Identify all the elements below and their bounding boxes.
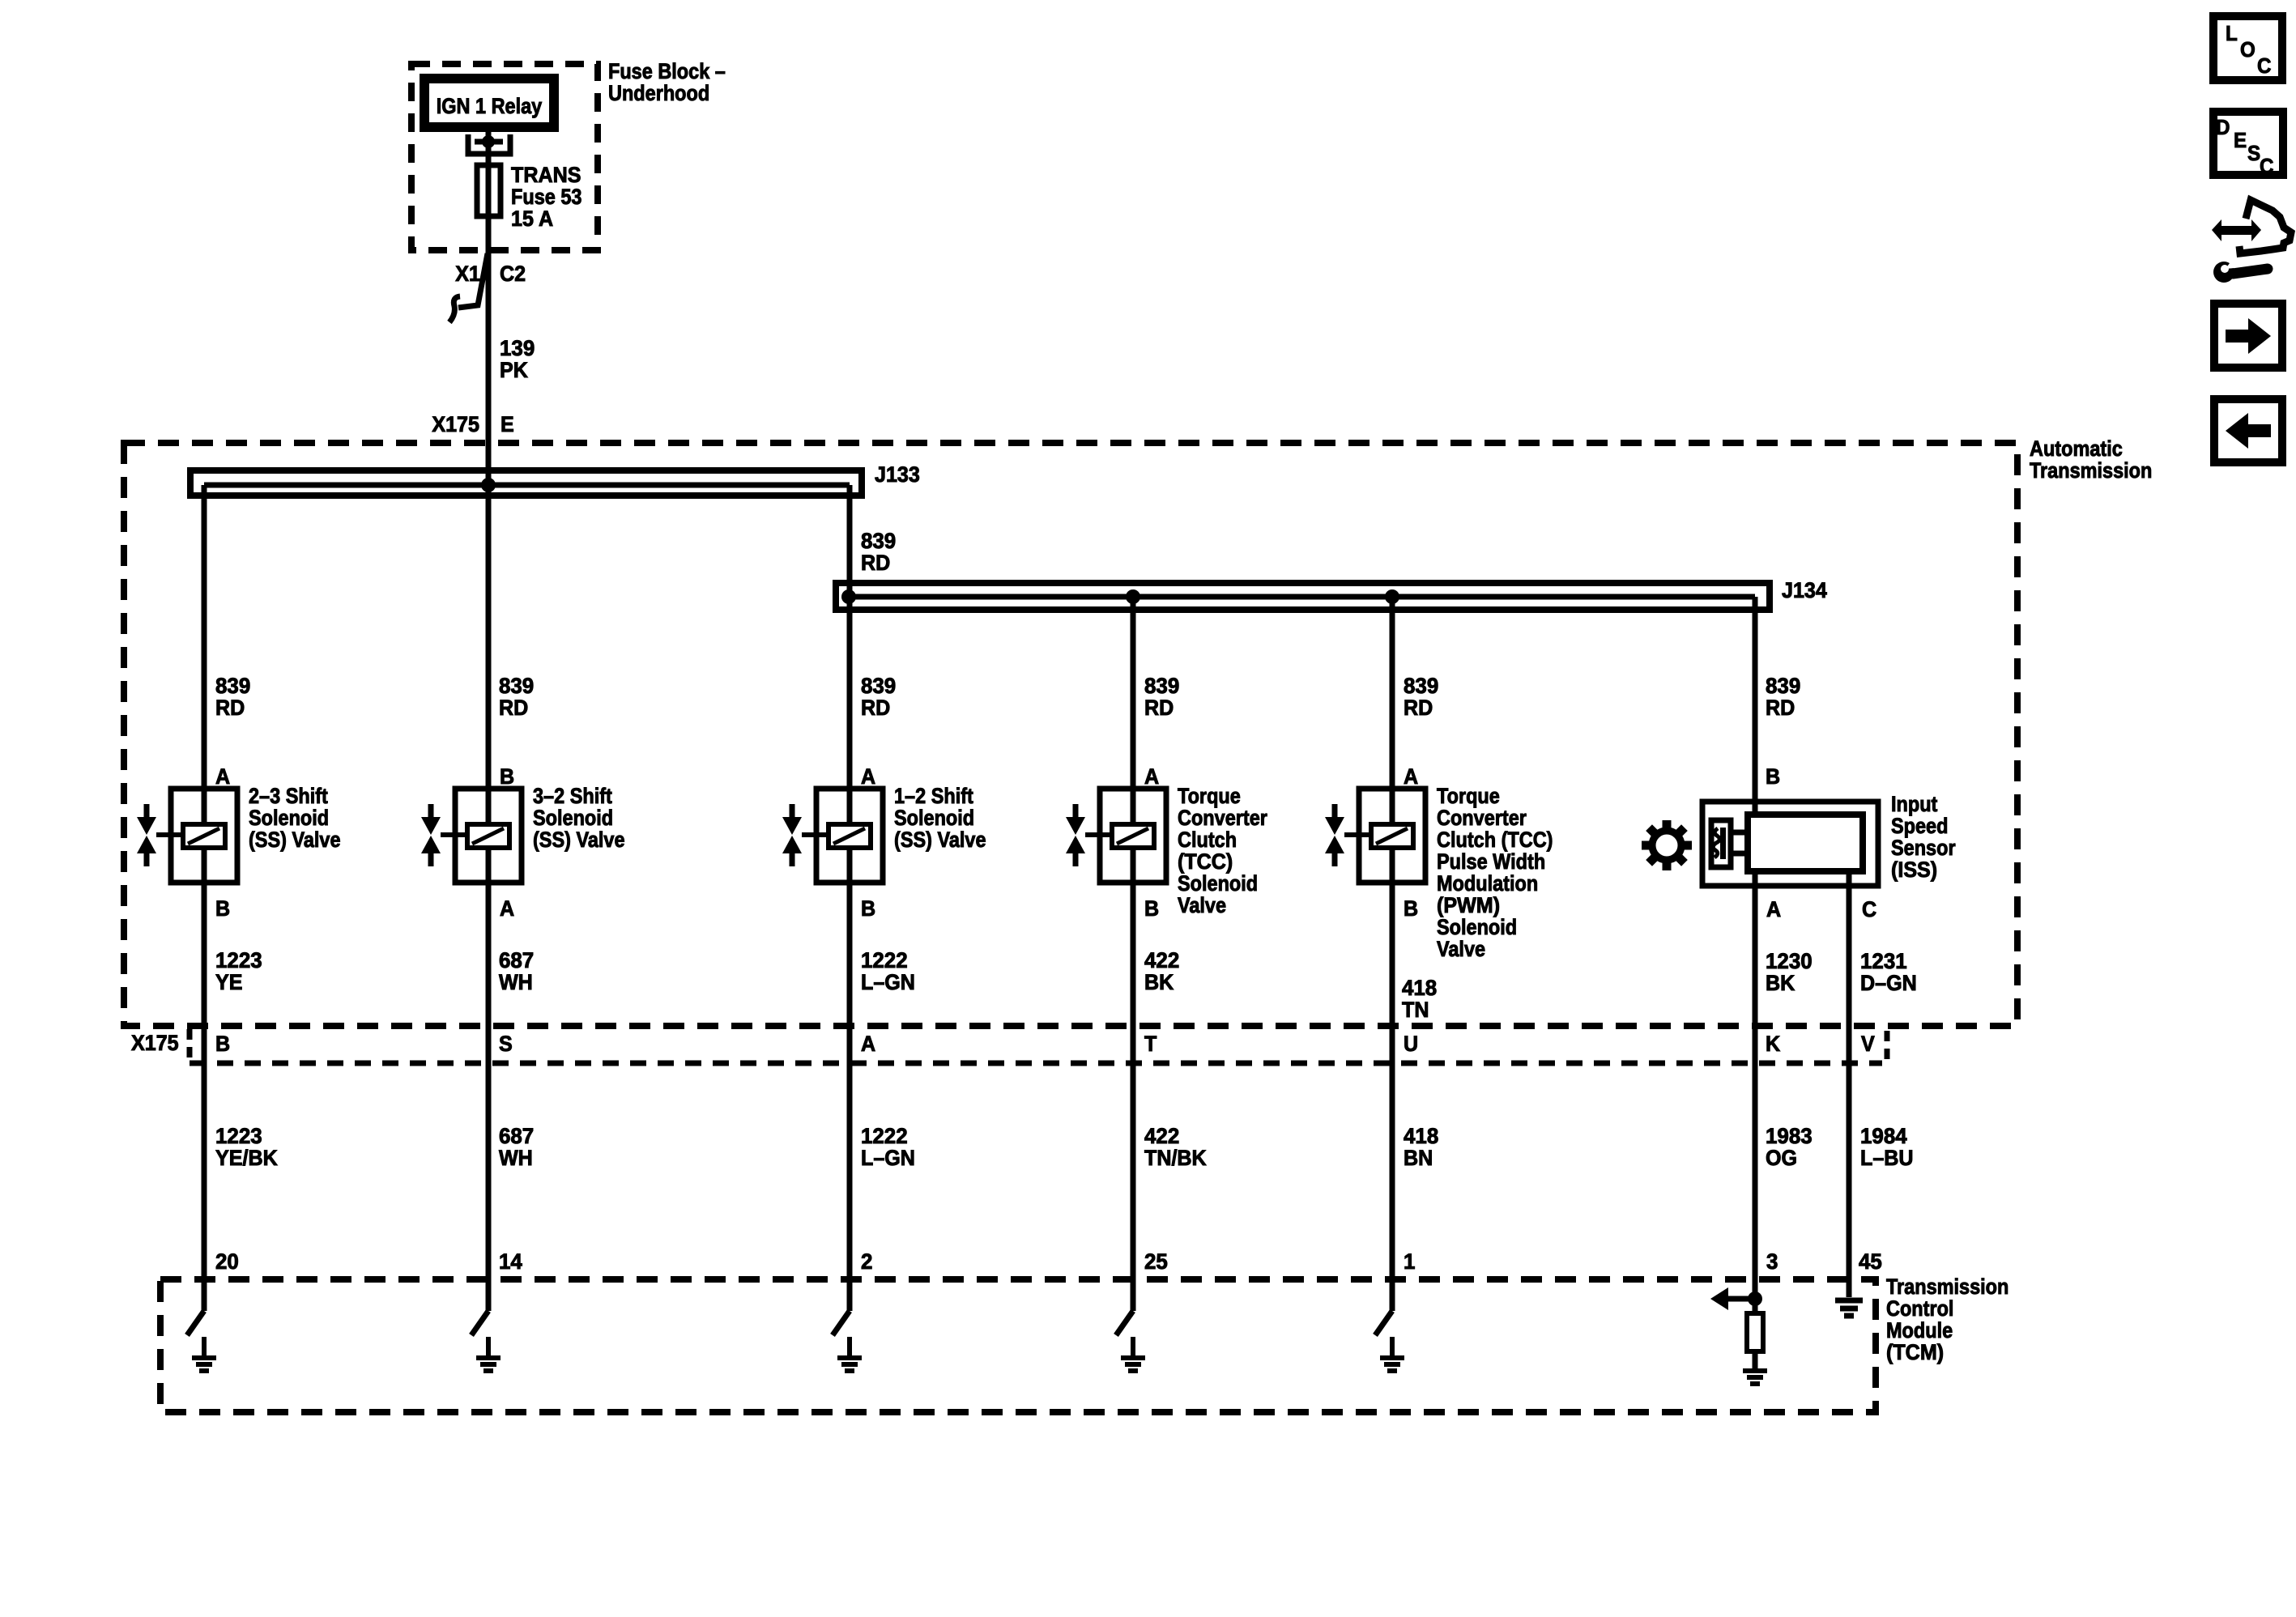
svg-text:WH: WH [499, 969, 533, 994]
svg-text:(ISS): (ISS) [1891, 857, 1937, 882]
svg-text:(SS) Valve: (SS) Valve [249, 828, 341, 853]
svg-text:3–2 Shift: 3–2 Shift [533, 785, 612, 809]
junction node J134 left [841, 589, 856, 604]
svg-text:BN: BN [1404, 1145, 1433, 1170]
svg-text:2: 2 [861, 1249, 872, 1274]
svg-text:(TCC): (TCC) [1178, 849, 1233, 874]
svg-text:Valve: Valve [1178, 894, 1226, 918]
solenoid 3-2 Shift Solenoid (SS) Valve [421, 764, 625, 921]
svg-text:RD: RD [861, 550, 890, 575]
svg-text:B: B [500, 764, 514, 789]
svg-text:A: A [1144, 764, 1159, 789]
svg-text:Converter: Converter [1437, 806, 1527, 831]
svg-text:A: A [1404, 764, 1418, 789]
ground at TCM pin 2 [833, 1311, 862, 1371]
solenoid 1-2 Shift Solenoid (SS) Valve [782, 764, 986, 921]
junction node on J133 [481, 478, 496, 492]
svg-text:PK: PK [500, 357, 528, 382]
svg-text:Fuse Block –: Fuse Block – [608, 60, 726, 84]
svg-text:X1: X1 [455, 261, 480, 286]
svg-text:RD: RD [1404, 695, 1433, 720]
svg-text:B: B [1404, 896, 1418, 921]
svg-text:15 A: 15 A [511, 206, 553, 231]
svg-text:45: 45 [1859, 1249, 1882, 1274]
svg-text:3: 3 [1766, 1249, 1778, 1274]
svg-text:RD: RD [861, 695, 890, 720]
svg-text:Transmission: Transmission [1886, 1275, 2008, 1300]
svg-text:IGN 1 Relay: IGN 1 Relay [437, 95, 543, 119]
svg-text:25: 25 [1144, 1249, 1168, 1274]
svg-text:YE/BK: YE/BK [215, 1145, 278, 1170]
svg-text:Solenoid: Solenoid [1437, 916, 1517, 940]
gear icon of ISS [1642, 820, 1692, 870]
relay IGN 1 Relay [424, 79, 554, 127]
svg-text:B: B [1144, 896, 1159, 921]
svg-text:1–2 Shift: 1–2 Shift [894, 785, 973, 809]
svg-text:OG: OG [1766, 1145, 1797, 1170]
svg-text:Torque: Torque [1437, 785, 1500, 809]
svg-text:E: E [2234, 129, 2247, 152]
svg-text:Solenoid: Solenoid [1178, 872, 1258, 896]
junction node J134 mid1 [1126, 589, 1140, 604]
svg-text:2–3 Shift: 2–3 Shift [249, 785, 328, 809]
connector X175 E [432, 411, 513, 436]
wire 1231 D-GN / 1984 L-BU: ISS pin C to TCM pin 45 [1847, 868, 1852, 1297]
svg-text:14: 14 [499, 1249, 522, 1274]
svg-text:V: V [1861, 1031, 1875, 1056]
svg-text:RD: RD [499, 695, 528, 720]
svg-text:B: B [215, 1031, 230, 1056]
svg-text:L–BU: L–BU [1860, 1145, 1914, 1170]
svg-text:(PWM): (PWM) [1437, 892, 1500, 917]
svg-text:YE: YE [215, 969, 242, 994]
wire 422: J134 drop to TCC solenoid, TCM pin 25 [1131, 597, 1136, 1311]
off-page takeout hook [449, 253, 488, 322]
svg-text:L: L [2226, 22, 2238, 45]
svg-text:Transmission: Transmission [2030, 459, 2152, 483]
svg-text:Solenoid: Solenoid [249, 806, 329, 831]
svg-text:Torque: Torque [1178, 785, 1241, 809]
solenoid Torque Converter Clutch (TCC) Solenoid Valve [1066, 764, 1267, 921]
svg-text:D: D [2216, 116, 2230, 139]
solenoid Torque Converter Clutch (TCC) PWM Solenoid Valve [1325, 764, 1553, 961]
svg-text:X175: X175 [131, 1030, 179, 1055]
ground at TCM pin 1 [1375, 1311, 1404, 1371]
svg-text:O: O [2240, 38, 2256, 62]
svg-text:20: 20 [215, 1249, 239, 1274]
svg-text:C: C [1862, 896, 1876, 921]
wire 1223 YE: J133 left drop to 2-3 shift solenoid and TCM pin 20 [202, 485, 207, 1311]
svg-text:Valve: Valve [1437, 938, 1485, 962]
svg-text:S: S [2247, 142, 2260, 165]
svg-text:A: A [861, 764, 875, 789]
forward navigation icon [2214, 304, 2282, 368]
back navigation icon [2214, 399, 2282, 462]
DESC hotlink icon [2213, 112, 2283, 178]
splice J134 [836, 577, 1827, 610]
svg-text:(TCM): (TCM) [1886, 1339, 1944, 1364]
svg-text:S: S [499, 1031, 513, 1056]
ground at TCM pin 20 [187, 1311, 216, 1371]
svg-text:E: E [501, 411, 514, 436]
junction node J134 mid2 [1385, 589, 1399, 604]
fuse TRANS Fuse 53 15 A [477, 162, 581, 231]
svg-text:TN: TN [1402, 997, 1429, 1022]
svg-text:C: C [2257, 54, 2271, 78]
resistor (TCM pull-down at pin 3) [1747, 1299, 1763, 1369]
svg-text:Control: Control [1886, 1297, 1953, 1321]
svg-text:Clutch (TCC): Clutch (TCC) [1437, 828, 1553, 853]
sensor Input Speed Sensor (ISS) [1702, 764, 1956, 921]
svg-text:BK: BK [1766, 970, 1795, 995]
svg-text:X175: X175 [432, 411, 479, 436]
wire 139 PK / 1223: feed from IGN1 relay through fuse, J133, 3-2 solenoid column [486, 132, 492, 1311]
automatic transmission dashed box [124, 443, 2017, 1026]
LOC hotlink icon [2213, 16, 2282, 80]
svg-text:Solenoid: Solenoid [894, 806, 974, 831]
svg-text:C2: C2 [500, 261, 526, 286]
svg-text:Underhood: Underhood [608, 82, 709, 106]
ground below resistor at TCM pin 3 [1743, 1371, 1767, 1384]
svg-text:RD: RD [1766, 695, 1795, 720]
svg-text:K: K [1766, 1031, 1780, 1056]
solenoid 2-3 Shift Solenoid (SS) Valve [137, 764, 341, 921]
splice J133 [190, 462, 920, 496]
svg-text:Input: Input [1891, 793, 1938, 817]
vehicle repair hotlink icon (car, double arrow, wrench) [2212, 200, 2291, 283]
node at TCM pin 3 [1748, 1291, 1762, 1306]
ground at TCM pin 45 [1835, 1300, 1863, 1316]
svg-text:RD: RD [215, 695, 245, 720]
transmission control module (TCM) dashed box [160, 1279, 1876, 1412]
svg-text:BK: BK [1144, 969, 1174, 994]
fuse holder clip [468, 134, 510, 154]
svg-text:WH: WH [499, 1145, 533, 1170]
fuse block - underhood dashed box [411, 64, 598, 250]
svg-text:A: A [500, 896, 514, 921]
svg-text:(SS) Valve: (SS) Valve [533, 828, 625, 853]
wire 418: J134 drop to TCC PWM solenoid, TCM pin 1 [1390, 597, 1395, 1311]
wire 839 RD / 1230 BK / 1983 OG: J134 right end to ISS pin B, pin A to TCM pin 3 [1753, 597, 1758, 818]
svg-text:U: U [1404, 1031, 1418, 1056]
connector X1 C2 [455, 261, 526, 286]
svg-text:A: A [215, 764, 230, 789]
svg-text:RD: RD [1144, 695, 1174, 720]
svg-text:A: A [861, 1031, 875, 1056]
svg-text:Automatic: Automatic [2030, 437, 2123, 462]
svg-text:J133: J133 [875, 462, 920, 487]
svg-text:L–GN: L–GN [861, 969, 915, 994]
svg-text:D–GN: D–GN [1860, 970, 1917, 995]
svg-text:TN/BK: TN/BK [1144, 1145, 1207, 1170]
wire 839 RD: J133 right drop through J134 to 1-2 shift solenoid, TCM pin 2 [847, 485, 853, 1311]
svg-text:J134: J134 [1782, 577, 1827, 602]
svg-text:B: B [861, 896, 875, 921]
svg-text:(SS) Valve: (SS) Valve [894, 828, 986, 853]
svg-text:L–GN: L–GN [861, 1145, 915, 1170]
svg-text:Solenoid: Solenoid [533, 806, 613, 831]
ground at TCM pin 14 [471, 1311, 501, 1371]
svg-text:T: T [1144, 1031, 1157, 1056]
svg-text:B: B [215, 896, 230, 921]
svg-text:B: B [1766, 764, 1780, 789]
svg-text:Pulse Width: Pulse Width [1437, 850, 1545, 874]
svg-text:A: A [1766, 896, 1781, 921]
signal arrow at TCM pin 3 [1710, 1287, 1755, 1310]
svg-text:Speed: Speed [1891, 815, 1948, 839]
svg-text:TRANS: TRANS [511, 162, 581, 187]
svg-text:Converter: Converter [1178, 806, 1267, 831]
svg-text:1: 1 [1404, 1249, 1415, 1274]
svg-text:C: C [2260, 155, 2273, 178]
ground at TCM pin 25 [1116, 1311, 1145, 1371]
connector X175 row [131, 1029, 1887, 1063]
